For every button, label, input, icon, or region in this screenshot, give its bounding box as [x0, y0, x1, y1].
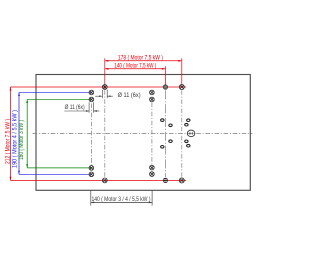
- green bottom hole line: [27, 167, 91, 169]
- hole left pair bottom lower: [89, 172, 94, 177]
- diameter dim lower arrows: [88, 102, 90, 113]
- pump foot slot 2: [169, 124, 172, 127]
- blue vertical dim 190: [18, 92, 20, 174]
- vertical centerline col 165.4: [164, 90, 166, 177]
- hole right pair bottom lower: [150, 172, 155, 177]
- base plate outline: [36, 75, 250, 191]
- bottom dim 140 lines: [90, 191, 92, 206]
- green top hole line: [27, 98, 91, 100]
- hole left pair bottom upper: [89, 166, 94, 171]
- vertical centerline col 181.8: [181, 90, 183, 177]
- vertical centerline col 104.8: [104, 90, 106, 177]
- red dim 140 line: [105, 68, 166, 70]
- diameter dim upper arrows: [101, 90, 103, 98]
- svg-text:160 ( Motor 3 kW ): 160 ( Motor 3 kW ): [18, 120, 25, 160]
- pump foot slot 6: [161, 146, 164, 149]
- svg-text:Ø 11 (6x): Ø 11 (6x): [65, 105, 85, 111]
- hole left pair top lower: [89, 97, 94, 102]
- svg-text:Ø 11 (6x): Ø 11 (6x): [118, 93, 141, 99]
- vertical centerline right pair: [151, 103, 153, 165]
- pump foot slot 7: [185, 140, 188, 143]
- red extension col3: [181, 58, 183, 87]
- pump foot slot 4: [185, 123, 188, 126]
- pump foot slot 1: [161, 119, 164, 122]
- red bottom hole line: [11, 179, 187, 181]
- hole top red col1: [102, 85, 107, 90]
- red vertical dim 212: [10, 87, 12, 180]
- hole right pair top lower: [150, 97, 155, 102]
- svg-text:212 ( Motor 7,5 kW ): 212 ( Motor 7,5 kW ): [4, 119, 11, 164]
- red top hole line: [11, 86, 187, 88]
- hole left pair top upper: [89, 90, 94, 95]
- pump foot slot 3: [187, 119, 190, 122]
- hole top red col2 dark: [163, 84, 168, 89]
- hole right pair top upper: [150, 90, 155, 95]
- svg-text:140 ( Motor 7,5 kW ): 140 ( Motor 7,5 kW ): [114, 63, 156, 69]
- hole bottom red col3: [179, 178, 184, 183]
- svg-text:178 ( Motor 7,5 kW ): 178 ( Motor 7,5 kW ): [118, 55, 163, 61]
- green vertical dim 160: [26, 99, 28, 167]
- svg-text:140 ( Motor 3 / 4 / 5,5 kW ): 140 ( Motor 3 / 4 / 5,5 kW ): [92, 197, 151, 203]
- vertical centerline left pair: [90, 104, 92, 166]
- red extension col1: [104, 58, 106, 89]
- pump foot slot 5: [169, 140, 172, 143]
- horizontal centerline: [33, 133, 253, 135]
- red dim 178 line: [105, 60, 182, 62]
- blue top hole line: [19, 91, 91, 93]
- blue bottom hole line: [19, 173, 91, 175]
- pump foot slot 8: [187, 144, 190, 147]
- hole bottom red col1: [102, 178, 107, 183]
- hole top red col3: [179, 85, 184, 90]
- red extension col2: [164, 66, 166, 87]
- hole bottom red col2 dark: [163, 178, 168, 183]
- shaft center mark: [187, 130, 195, 137]
- hole right pair bottom upper: [150, 165, 155, 170]
